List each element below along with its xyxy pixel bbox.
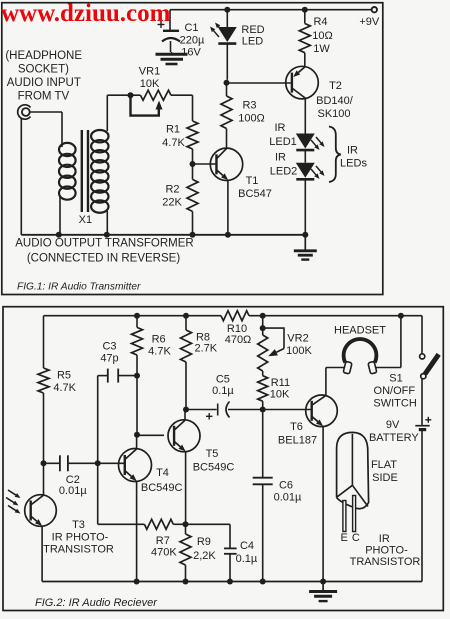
wire node D down to R7	[98, 463, 145, 524]
resistor R2	[187, 179, 198, 211]
label IR PHOTO-TRANSISTOR (pkg)	[350, 533, 421, 568]
svg-text:T2: T2	[329, 80, 342, 92]
diode RED LED	[218, 27, 237, 80]
node rail C6	[260, 579, 266, 585]
wire T6 collector to headset	[326, 368, 345, 396]
svg-text:100K: 100K	[286, 345, 312, 357]
wire +9V supply rail	[170, 9, 372, 11]
capacitor C3	[108, 369, 137, 383]
resistor R3	[221, 96, 232, 129]
audio input jack	[18, 105, 31, 119]
wire IR LED1 to IR LED2	[304, 150, 306, 163]
label T3	[43, 519, 114, 556]
svg-text:R6: R6	[152, 334, 166, 346]
wire T1 emitter to ground rail	[227, 180, 229, 235]
wire ground rail FIG.1	[21, 234, 305, 236]
wire C4 to ground rail	[229, 554, 231, 582]
wire T2 collector to IR LED1	[304, 99, 306, 134]
svg-text:16V: 16V	[181, 47, 201, 59]
node B (R1-R2-T1 base)	[190, 161, 196, 167]
label R3 value	[238, 100, 265, 125]
capacitor C4	[224, 548, 237, 553]
svg-text:220µ: 220µ	[180, 35, 205, 47]
phototransistor package outline	[337, 432, 369, 508]
svg-text:T6: T6	[290, 421, 303, 433]
svg-text:C6: C6	[279, 480, 293, 492]
label IR LEDs	[340, 145, 367, 170]
svg-text:S1: S1	[389, 373, 402, 385]
label T5	[193, 448, 235, 474]
transistor T4	[119, 449, 152, 482]
headset symbol	[343, 339, 377, 374]
wire R2 to ground rail	[192, 211, 194, 234]
capacitor C1	[158, 21, 181, 52]
svg-text:22K: 22K	[162, 197, 182, 209]
wire rail to RED LED	[226, 10, 228, 27]
label T6	[278, 421, 317, 447]
label C5 value	[212, 374, 234, 398]
svg-text:IR PHOTO-: IR PHOTO-	[52, 532, 109, 544]
node rail T6 emitter	[320, 579, 326, 585]
svg-text:R9: R9	[197, 536, 211, 548]
wire node D to T4 base	[98, 462, 125, 464]
node rail R8	[183, 313, 189, 319]
label T4	[141, 467, 183, 494]
label C1 value	[180, 22, 205, 59]
label R11 value	[270, 377, 290, 401]
wire jack sleeve to ground rail	[20, 118, 22, 235]
svg-text:HEADSET: HEADSET	[334, 324, 386, 336]
svg-text:0.01µ: 0.01µ	[274, 492, 302, 504]
svg-text:T4: T4	[156, 467, 169, 479]
label C2 value	[59, 474, 87, 497]
svg-text:10K: 10K	[270, 388, 290, 400]
wire R9 to ground rail	[185, 565, 187, 582]
label FLAT SIDE	[371, 459, 398, 484]
resistor R7	[144, 519, 173, 529]
wire rail to R8	[185, 316, 187, 330]
svg-text:IR: IR	[379, 533, 390, 545]
svg-text:0.1µ: 0.1µ	[236, 553, 258, 565]
wire X1 secondary bottom stem	[106, 211, 108, 235]
svg-text:VR1: VR1	[139, 66, 160, 78]
node D (C2-T4 base-R7)	[95, 460, 101, 466]
node rail T4 emitter	[134, 579, 140, 585]
potentiometer VR1	[131, 90, 193, 100]
node F (T4 collector-T5 base)	[134, 432, 140, 438]
svg-text:C5: C5	[216, 374, 230, 386]
svg-text:0.01µ: 0.01µ	[59, 485, 87, 497]
svg-text:E: E	[341, 532, 348, 544]
wire node B to R2	[192, 164, 194, 179]
wire R5 to node C	[43, 393, 45, 463]
svg-text:AUDIO INPUT: AUDIO INPUT	[7, 77, 81, 89]
ground (C1)	[156, 52, 188, 64]
svg-text:BATTERY: BATTERY	[369, 432, 419, 444]
svg-text:0.1µ: 0.1µ	[212, 385, 234, 397]
svg-text:R5: R5	[57, 370, 71, 382]
label C6 value	[274, 480, 302, 504]
label IR LED2	[270, 152, 298, 178]
svg-text:R2: R2	[165, 184, 179, 196]
wire node I to C6	[262, 410, 264, 478]
svg-text:BC549C: BC549C	[193, 462, 235, 474]
resistor R4	[299, 24, 310, 53]
label R9 value	[193, 536, 216, 562]
capacitor C2	[44, 455, 98, 471]
node G (T5 collector-C5)	[183, 407, 189, 413]
wire X1 primary stems	[60, 144, 62, 235]
node VR2 top	[260, 325, 266, 331]
wire R11 to node I	[262, 401, 264, 409]
node VR1 left	[128, 92, 134, 98]
wire X1 secondary top stem	[107, 95, 130, 131]
diode IR LED1	[296, 134, 315, 151]
wire node G to C5	[186, 409, 217, 411]
wire +V rail FIG.2 right	[249, 315, 422, 317]
svg-text:C1: C1	[184, 22, 198, 34]
svg-text:10K: 10K	[140, 78, 160, 90]
caption FIG.2	[35, 597, 158, 609]
resistor R1	[187, 121, 198, 149]
svg-text:470K: 470K	[151, 547, 177, 559]
wire VR1 to R1	[192, 95, 194, 121]
node rail VR2	[260, 313, 266, 319]
svg-text:R11: R11	[271, 377, 290, 389]
label HEADSET	[334, 324, 386, 336]
wire R6 to node E	[136, 355, 138, 376]
node rail junction (R4)	[302, 7, 308, 13]
transistor T1	[210, 148, 242, 180]
wire ground rail FIG.2	[42, 581, 422, 583]
node I (R11-C5-C6-T6 base)	[260, 407, 266, 413]
phototransistor T3	[25, 495, 57, 527]
LED emission arrows (IR LED1)	[311, 137, 325, 150]
wire T3 emitter to ground rail	[41, 526, 43, 582]
diode IR LED2	[296, 163, 315, 180]
FIG.2 box frame	[3, 307, 443, 611]
label C4 value	[236, 540, 258, 565]
wire T5 collector up	[184, 410, 186, 421]
label 9V BATTERY	[369, 419, 419, 444]
wire node C to T3 collector	[43, 463, 45, 495]
VR2 wiper	[263, 328, 284, 356]
svg-text:FIG.1: IR Audio Transmitter: FIG.1: IR Audio Transmitter	[17, 282, 141, 293]
VR1 wiper	[131, 95, 163, 115]
node H (R7-R9-T5 emitter)	[183, 521, 189, 527]
node rail C4	[227, 579, 233, 585]
svg-text:T5: T5	[206, 448, 219, 460]
node rail R9	[183, 579, 189, 585]
resistor R9	[180, 534, 191, 565]
node +9V terminal	[372, 7, 377, 12]
resistor R6	[132, 327, 143, 355]
label R5 value	[53, 370, 76, 394]
wire node E to node F	[136, 376, 138, 435]
svg-text:BEL187: BEL187	[278, 435, 317, 447]
svg-text:2.7K: 2.7K	[194, 343, 217, 355]
wire VR2 to R11	[262, 371, 264, 376]
light arrows (T3)	[6, 490, 21, 514]
svg-text:R4: R4	[313, 16, 327, 28]
label R2 value	[162, 184, 182, 209]
svg-text:R7: R7	[156, 535, 170, 547]
svg-text:+9V: +9V	[359, 16, 380, 28]
capacitor C5	[206, 402, 263, 420]
svg-text:BC547: BC547	[238, 188, 272, 200]
svg-text:R1: R1	[166, 124, 180, 136]
label T1	[238, 175, 272, 200]
node C (R5-C2-T3)	[41, 460, 47, 466]
wire node B to T1 base	[193, 163, 217, 165]
wire rail to VR2 node	[262, 316, 264, 328]
node rail T1 emitter	[225, 232, 231, 238]
wire node D up to C3	[98, 376, 108, 464]
svg-text:C3: C3	[102, 341, 116, 353]
svg-text:BD140/: BD140/	[316, 95, 354, 107]
svg-text:LEDs: LEDs	[340, 158, 367, 170]
wire rail corner to S1	[421, 316, 423, 354]
label T2	[316, 80, 354, 120]
label R6 value	[148, 334, 171, 358]
svg-text:9V: 9V	[386, 419, 400, 431]
svg-text:470Ω: 470Ω	[225, 334, 252, 346]
wire node I to T6 base	[263, 409, 312, 411]
wire T4 emitter to ground rail	[136, 481, 138, 582]
wire +V rail FIG.2 left	[44, 315, 222, 317]
wire R4 to T2 emitter	[304, 53, 306, 67]
wire T4 collector up	[136, 435, 138, 449]
wire node F to T5 base	[137, 434, 164, 436]
phototransistor package pins	[343, 496, 356, 532]
node rail headset	[398, 313, 404, 319]
switch S1	[420, 354, 439, 425]
svg-text:C4: C4	[240, 540, 254, 552]
svg-text:AUDIO OUTPUT TRANSFORMER: AUDIO OUTPUT TRANSFORMER	[15, 237, 193, 249]
svg-text:4.7K: 4.7K	[148, 346, 171, 358]
node rail R2	[190, 232, 196, 238]
resistor R10	[221, 311, 249, 321]
svg-text:C: C	[352, 532, 360, 544]
resistor R11	[258, 376, 268, 402]
label R10 value	[225, 323, 252, 346]
wire node H to C4	[186, 524, 231, 548]
wire IR LED2 to ground	[304, 179, 306, 235]
svg-text:BC549C: BC549C	[141, 482, 183, 494]
transistor T6	[306, 395, 338, 427]
transformer X1 core	[82, 130, 88, 212]
svg-text:TRANSISTOR: TRANSISTOR	[43, 544, 114, 556]
wire R3 to T1 collector	[226, 129, 228, 149]
potentiometer VR2	[258, 328, 268, 371]
transistor T5	[168, 420, 200, 452]
node rail junction (RED LED)	[224, 7, 230, 13]
wire R1 to node B	[192, 149, 194, 164]
label E C pins	[341, 532, 360, 544]
svg-text:T3: T3	[72, 519, 85, 531]
svg-text:LED: LED	[242, 36, 263, 48]
wire C6 to ground rail	[262, 484, 264, 581]
label VR1 value	[139, 66, 160, 90]
transformer X1 primary winding	[59, 143, 76, 200]
label C3 value	[100, 341, 118, 365]
svg-text:FLAT: FLAT	[371, 459, 397, 471]
label R8 value	[194, 332, 217, 355]
wire node A to R3	[226, 83, 228, 96]
svg-text:RED: RED	[241, 24, 264, 36]
svg-text:SK100: SK100	[317, 108, 350, 120]
svg-text:ON/OFF: ON/OFF	[374, 385, 416, 397]
svg-text:4.7K: 4.7K	[162, 137, 185, 149]
wire node H to R9	[185, 524, 187, 534]
resistor R8	[181, 330, 192, 362]
svg-text:100Ω: 100Ω	[238, 113, 265, 125]
label +9V	[359, 16, 380, 28]
wire T6 emitter to ground rail	[322, 426, 324, 581]
label R1 value	[162, 124, 185, 150]
wire jack tip to X1 primary	[30, 112, 62, 144]
label headphone socket	[5, 50, 82, 103]
watermark www.dziuu.com	[1, 0, 171, 27]
wire rail to R6	[136, 316, 138, 328]
wire C1 to rail	[169, 10, 171, 30]
wire rail to R5	[43, 316, 45, 368]
label X1	[79, 214, 92, 226]
ground (FIG.1 main)	[294, 235, 317, 260]
svg-text:FROM TV: FROM TV	[18, 91, 70, 103]
wire node A to T2 base	[227, 82, 292, 84]
node rail X1 primary	[56, 232, 62, 238]
svg-text:www.dziuu.com: www.dziuu.com	[1, 0, 171, 27]
svg-text:4.7K: 4.7K	[53, 382, 76, 394]
node rail ground	[302, 232, 308, 238]
label RED LED	[241, 24, 264, 48]
svg-text:10Ω: 10Ω	[312, 30, 332, 42]
svg-text:SIDE: SIDE	[372, 472, 398, 484]
svg-text:PHOTO-: PHOTO-	[365, 545, 408, 557]
wire T5 emitter down	[185, 451, 187, 524]
wire R7 to node H	[173, 523, 185, 525]
svg-text:LED1: LED1	[269, 136, 297, 148]
label audio output transformer	[15, 237, 193, 264]
svg-text:2,2K: 2,2K	[193, 550, 216, 562]
wire rail to R4	[304, 10, 306, 24]
capacitor C6	[253, 478, 273, 485]
transistor T2	[286, 66, 319, 99]
svg-text:IR: IR	[347, 145, 358, 157]
svg-text:IR: IR	[275, 152, 286, 164]
node rail X1 secondary	[104, 232, 110, 238]
node A (LED-R3-T2 base)	[224, 80, 230, 86]
svg-text:R3: R3	[242, 100, 256, 112]
resistor R5	[38, 368, 49, 393]
transformer X1 secondary winding	[91, 130, 108, 213]
battery 9V	[415, 417, 431, 582]
svg-text:T1: T1	[246, 175, 259, 187]
svg-text:X1: X1	[79, 214, 92, 226]
svg-text:TRANSISTOR: TRANSISTOR	[350, 556, 421, 568]
svg-text:SOCKET): SOCKET)	[18, 64, 69, 76]
FIG.1 box frame	[2, 3, 383, 295]
LED emission arrows (RED LED)	[210, 23, 224, 38]
svg-text:1W: 1W	[313, 43, 330, 55]
ground (FIG.2)	[309, 582, 337, 602]
label R4 value	[312, 16, 332, 55]
node rail R6	[134, 313, 140, 319]
svg-text:(CONNECTED IN REVERSE): (CONNECTED IN REVERSE)	[27, 252, 181, 264]
svg-text:SWITCH: SWITCH	[373, 397, 416, 409]
svg-text:IR: IR	[275, 122, 286, 134]
svg-text:(HEADPHONE: (HEADPHONE	[5, 50, 82, 62]
svg-text:47p: 47p	[100, 353, 118, 365]
LED emission arrows (IR LED2)	[311, 166, 325, 179]
caption FIG.1	[17, 282, 141, 293]
node E (C3-R6)	[134, 373, 140, 379]
svg-text:VR2: VR2	[287, 333, 308, 345]
wire headset right to rail	[376, 316, 401, 368]
brace IR LEDs	[329, 127, 341, 183]
wire R8 to node G	[185, 362, 187, 410]
svg-text:FIG.2: IR Audio Reciever: FIG.2: IR Audio Reciever	[35, 597, 158, 609]
label R7 value	[151, 535, 177, 559]
svg-text:LED2: LED2	[270, 166, 298, 178]
label VR2 value	[286, 333, 312, 357]
label IR LED1	[269, 122, 297, 148]
label S1	[373, 373, 416, 410]
